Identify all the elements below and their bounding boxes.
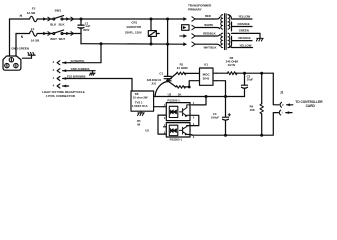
svg-text:3041: 3041 <box>203 77 210 81</box>
wire gnd from inlet <box>22 55 31 58</box>
svg-text:1.5KE7.5CA: 1.5KE7.5CA <box>132 104 148 108</box>
svg-text:PRIMARY: PRIMARY <box>188 8 202 12</box>
connector chevrons N line left pair <box>43 33 47 35</box>
wire receptacle N drop <box>70 44 101 63</box>
connector chevrons H line left pair <box>43 17 51 21</box>
secondary wire orange 1 <box>232 22 253 31</box>
svg-text:WHT: WHT <box>50 37 57 41</box>
svg-text:PS2505-1: PS2505-1 <box>170 138 183 142</box>
svg-text:250FL, 130V: 250FL, 130V <box>125 30 142 34</box>
svg-text:CR1: CR1 <box>131 20 137 24</box>
wire drop to U2 pin4 <box>192 97 206 105</box>
wire AC bottom rail <box>81 43 183 46</box>
wire phase drop to C1 coupling <box>167 18 169 76</box>
svg-text:600V: 600V <box>83 28 89 32</box>
svg-text:YELLOW: YELLOW <box>239 43 251 47</box>
svg-text:ORANGE: ORANGE <box>238 36 250 40</box>
resistor R5 label <box>137 119 141 127</box>
optocoupler U2 PS2505-1 <box>164 98 195 120</box>
transformer primary chevrons row1 <box>183 14 219 21</box>
receptacle pin 2 <box>53 59 85 64</box>
chassis ground TVS <box>138 111 145 115</box>
label BLK BLK <box>50 22 65 26</box>
label WHT WHT <box>50 37 65 41</box>
chassis ground center tap <box>256 38 263 41</box>
svg-text:BLK: BLK <box>50 22 57 26</box>
svg-text:RED: RED <box>205 14 211 18</box>
label GND GREEN <box>11 46 29 50</box>
optocoupler U1 MOC3041 <box>200 63 217 86</box>
connector chevrons H line right pair <box>66 17 74 21</box>
svg-text:68: 68 <box>137 123 140 127</box>
wire U2 pin2 to U3 pin2 <box>158 115 164 134</box>
varistor CR1 <box>125 18 159 45</box>
svg-text:U1: U1 <box>204 63 208 67</box>
svg-text:R5: R5 <box>137 119 141 123</box>
svg-text:RED/BLK: RED/BLK <box>203 31 215 35</box>
secondary wire yellow 1 <box>228 14 252 19</box>
switch SW1 pole B <box>53 30 64 34</box>
label transformer primary <box>188 4 212 12</box>
svg-text:100uF: 100uF <box>211 116 219 120</box>
svg-text:N (WHITE): N (WHITE) <box>71 59 85 63</box>
svg-text:1A SB: 1A SB <box>31 39 41 43</box>
wire +V to J1 pin1 <box>273 73 279 105</box>
capacitor C3 <box>211 112 231 135</box>
svg-text:C1: C1 <box>159 72 163 76</box>
receptacle pin 1 E33 <box>53 75 132 81</box>
resistor R3 <box>216 56 273 74</box>
svg-text:PS2505-1: PS2505-1 <box>167 98 180 102</box>
svg-text:VARISTOR: VARISTOR <box>126 25 142 29</box>
connector J1 <box>279 91 323 116</box>
receptacle pin 3 gnd <box>53 67 95 73</box>
svg-text:WHT: WHT <box>59 37 66 41</box>
svg-text:.1uF: .1uF <box>85 24 91 28</box>
capacitor C1 coupling <box>159 72 171 81</box>
svg-text:10uF: 10uF <box>247 78 254 82</box>
fuse F2 <box>27 7 38 22</box>
wire H line top rail <box>10 19 184 56</box>
svg-text:91 OHM: 91 OHM <box>177 66 188 70</box>
secondary wire orange 2 <box>232 36 253 45</box>
svg-text:WHT/BLK: WHT/BLK <box>204 45 217 49</box>
svg-text:JU1: JU1 <box>151 82 156 86</box>
fuse F1 <box>30 27 41 42</box>
wire TVS to U2 pin1 <box>154 106 164 108</box>
chassis ground inlet <box>28 52 35 55</box>
svg-text:1A SB: 1A SB <box>27 11 37 15</box>
chassis ground receptacle <box>90 71 95 76</box>
jumper JU1 arc <box>147 78 167 96</box>
switch SW1 pole A <box>53 9 64 20</box>
label receptacle <box>42 90 85 98</box>
wire ground rail <box>192 113 278 137</box>
transformer primary chevrons row3 <box>180 31 220 38</box>
svg-text:10K: 10K <box>250 108 255 112</box>
svg-text:228-0002-01: 228-0002-01 <box>147 78 162 82</box>
svg-text:F1: F1 <box>31 27 35 31</box>
resistor R2 <box>168 81 200 97</box>
capacitor C2 <box>242 72 254 96</box>
wire U2 pin3 to U3 pin4 <box>192 115 199 125</box>
wire U1 output to C3 <box>216 81 225 117</box>
wire zero cross line <box>154 96 245 98</box>
transformer T1 winding primary <box>221 15 223 48</box>
resistor R4 <box>250 72 264 135</box>
svg-text:GND GREEN: GND GREEN <box>11 46 29 50</box>
connector chevrons N line right pair <box>66 33 69 35</box>
transformer primary chevrons row4 <box>183 42 219 49</box>
svg-text:U3: U3 <box>145 129 149 133</box>
capacitor C1 line filter <box>78 18 91 44</box>
wire N line <box>16 34 81 57</box>
optocoupler U3 PS2505-1 <box>164 123 195 142</box>
IEC power inlet <box>3 56 21 70</box>
svg-text:WHITE: WHITE <box>204 23 213 27</box>
wire E33 into box <box>131 79 133 92</box>
transformer primary chevrons row2 <box>182 23 220 31</box>
svg-text:4 POS. CONNECTOR: 4 POS. CONNECTOR <box>46 94 76 98</box>
svg-text:U2: U2 <box>168 92 172 96</box>
svg-text:ORANGE: ORANGE <box>237 22 249 26</box>
svg-text:CARD: CARD <box>306 104 316 108</box>
svg-text:YELLOW: YELLOW <box>238 14 250 18</box>
svg-text:BLK: BLK <box>59 22 66 26</box>
node C1 bottom <box>167 80 171 82</box>
resistor R1 <box>168 63 199 81</box>
transformer winding secondary <box>228 15 230 48</box>
receptacle pin 4 <box>53 84 69 89</box>
svg-text:GREEN: GREEN <box>239 29 249 33</box>
svg-text:J1: J1 <box>280 91 284 95</box>
svg-text:E33 (BROWN): E33 (BROWN) <box>67 75 86 79</box>
svg-text:GND (GREEN): GND (GREEN) <box>71 67 90 71</box>
secondary wire green center tap <box>232 29 261 39</box>
svg-text:10 ohm 2W: 10 ohm 2W <box>133 95 148 99</box>
svg-text:SW1: SW1 <box>55 9 62 13</box>
box R6 TVS1 <box>131 91 154 111</box>
svg-text:1/2 W: 1/2 W <box>228 63 236 67</box>
secondary wire yellow 2 <box>228 43 253 47</box>
transformer core <box>225 14 227 50</box>
